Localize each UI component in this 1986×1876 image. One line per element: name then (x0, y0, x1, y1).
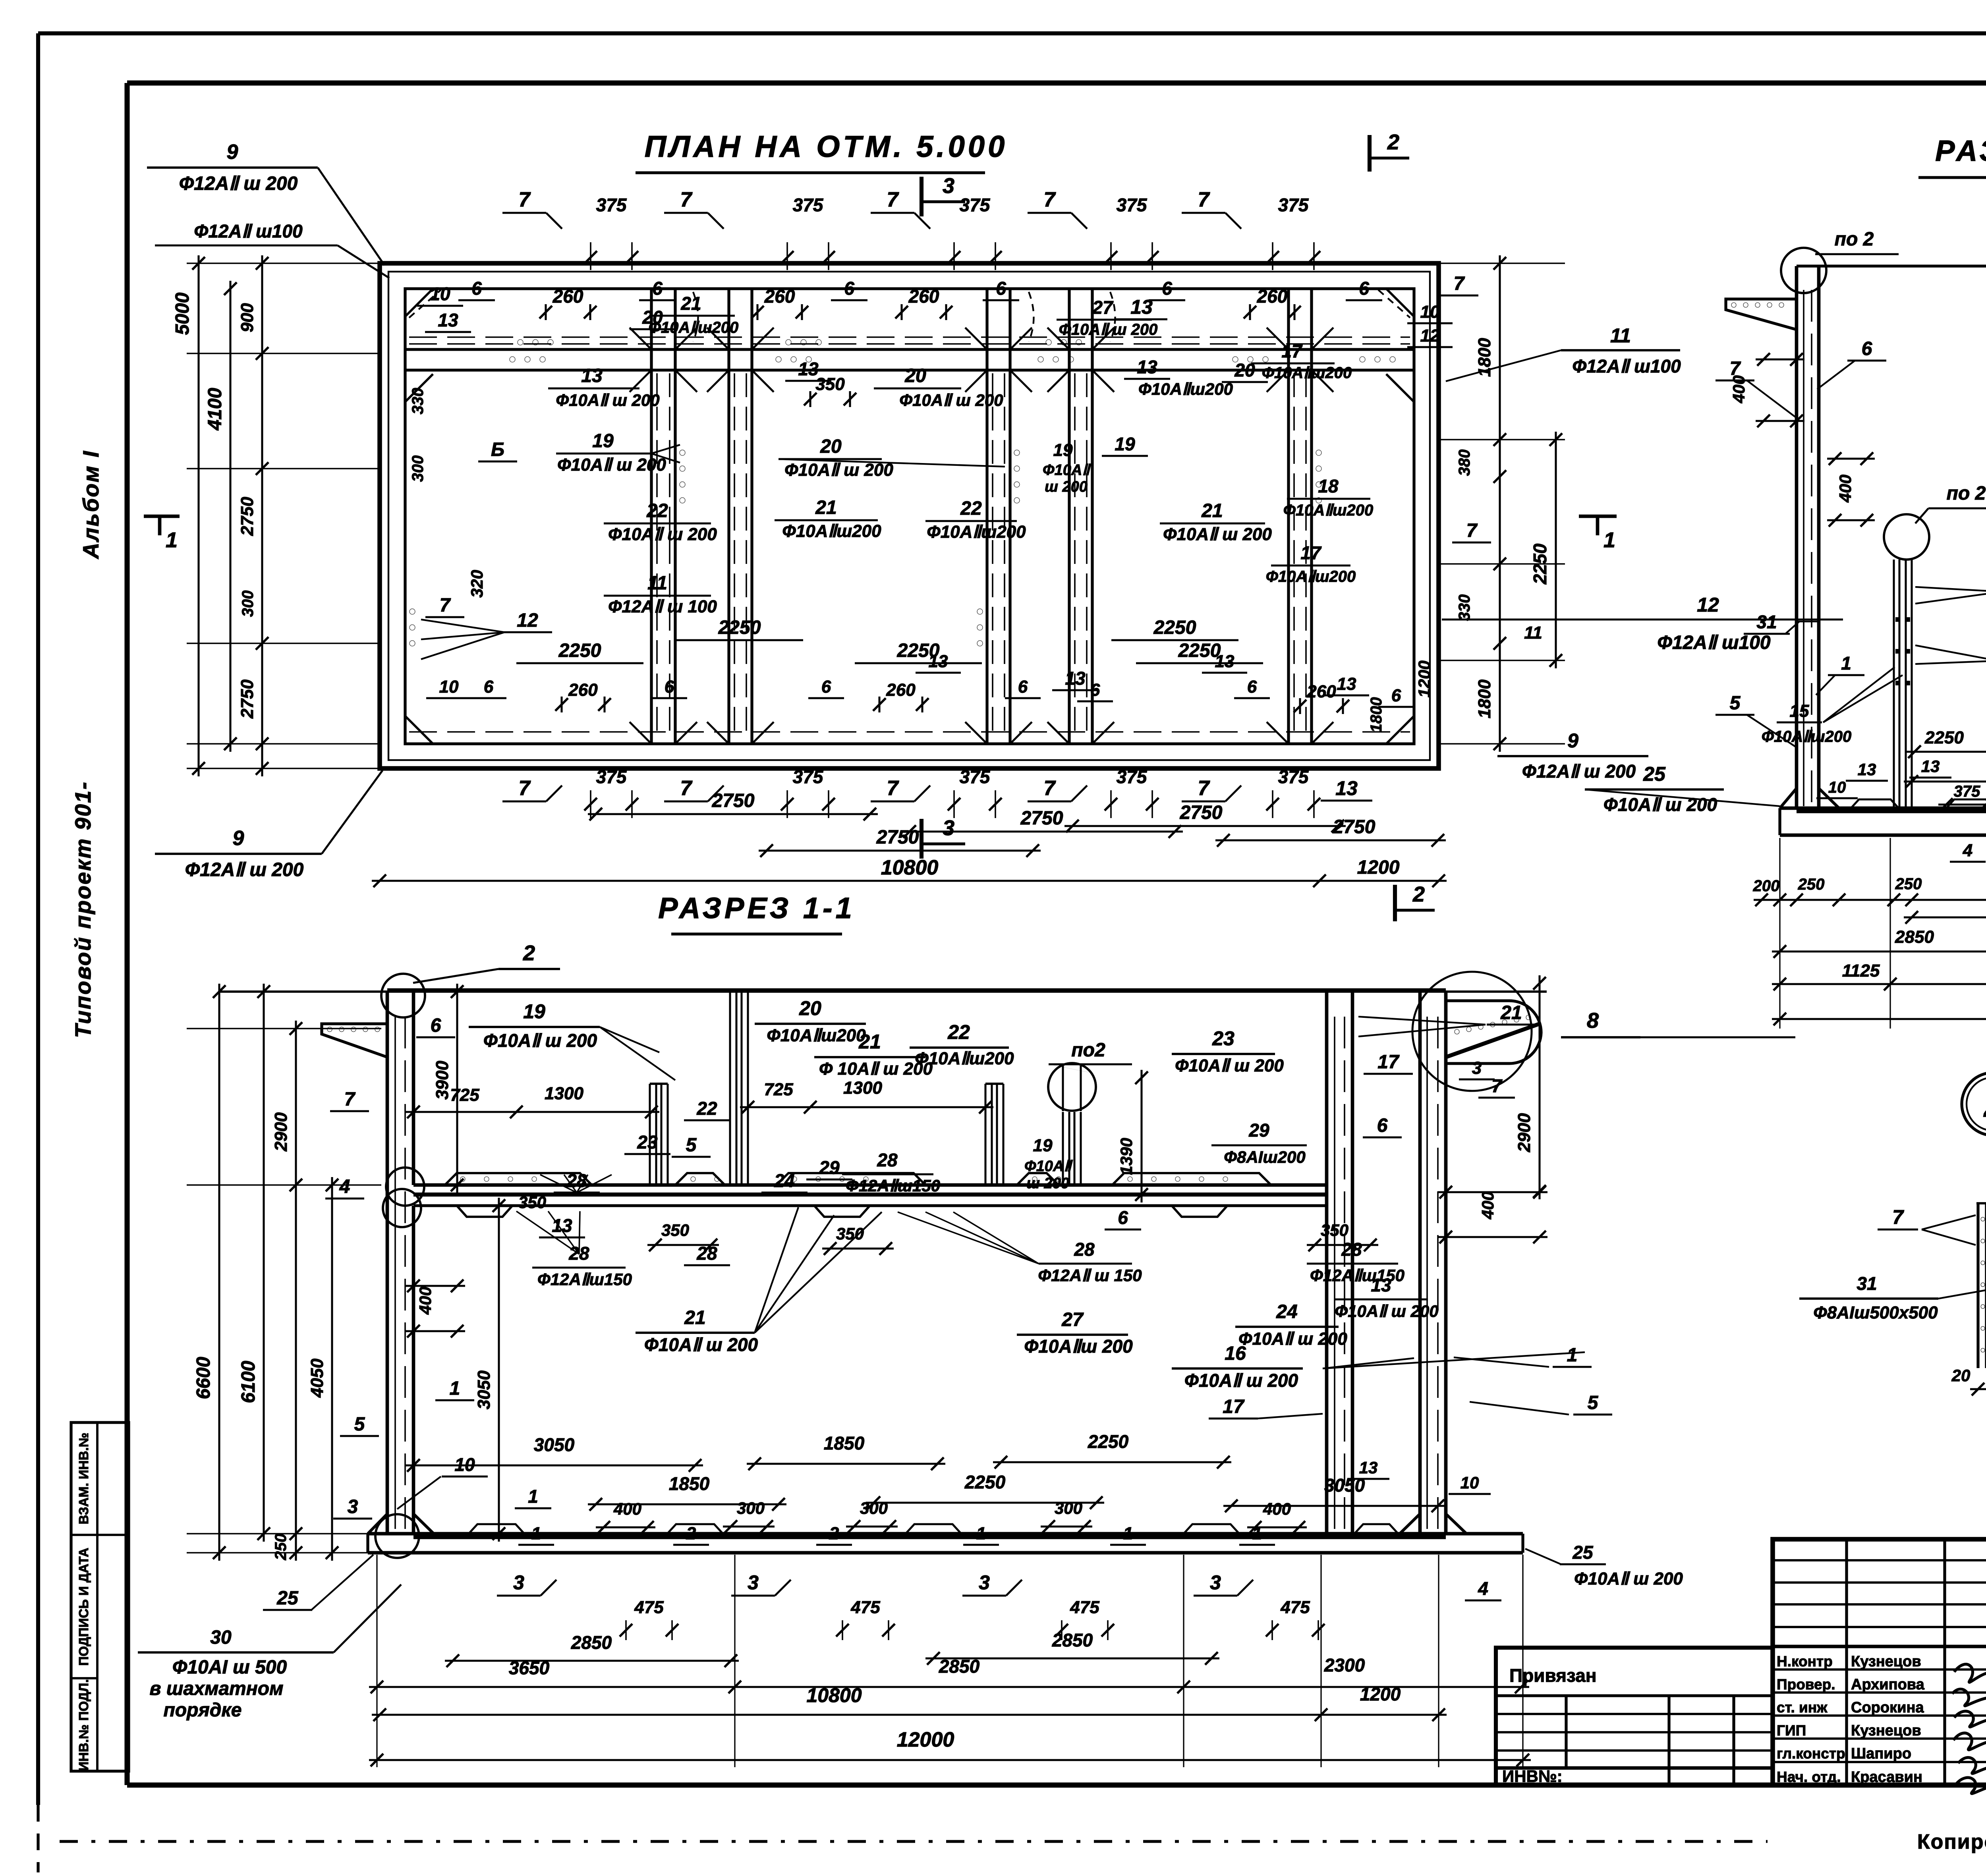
svg-text:Сорокина: Сорокина (1851, 1699, 1924, 1716)
detail balloon circle 2 (1962, 1073, 1986, 1135)
svg-text:10800: 10800 (806, 1684, 862, 1706)
svg-text:6: 6 (431, 1015, 441, 1036)
svg-text:6600: 6600 (193, 1357, 214, 1399)
plan outer wall rectangle (380, 263, 1439, 768)
svg-text:13: 13 (552, 1215, 572, 1236)
plan outer wall formwork line (388, 272, 1430, 760)
svg-text:3: 3 (1472, 1058, 1482, 1078)
s11 leader 25 left (311, 1555, 373, 1610)
svg-text:17: 17 (1281, 341, 1303, 361)
svg-text:Ф10АⅡш200: Ф10АⅡш200 (782, 521, 881, 541)
svg-text:1390: 1390 (1117, 1138, 1136, 1175)
plan right long leader line 12 (1442, 618, 1843, 620)
svg-text:300: 300 (239, 591, 257, 617)
svg-text:2300: 2300 (1324, 1655, 1365, 1675)
s11 leaders 28 below a (516, 1211, 579, 1254)
svg-text:6: 6 (821, 677, 831, 697)
svg-text:Ф10АⅡ ш 200: Ф10АⅡ ш 200 (483, 1030, 597, 1051)
svg-text:Ф10АⅡ ш 200: Ф10АⅡ ш 200 (608, 525, 717, 544)
s11 leader 21 low (755, 1215, 834, 1333)
svg-text:350: 350 (1321, 1221, 1348, 1239)
svg-text:1850: 1850 (824, 1433, 865, 1453)
svg-text:3900: 3900 (433, 1061, 452, 1100)
ext table INV row top line (1496, 1766, 1773, 1770)
column detail left bar (1976, 1203, 1979, 1368)
signature table column lines (1845, 1539, 1848, 1785)
svg-text:1: 1 (1252, 1524, 1262, 1543)
svg-text:21: 21 (684, 1307, 705, 1328)
svg-text:17: 17 (1377, 1052, 1400, 1073)
svg-text:260: 260 (1306, 682, 1336, 701)
svg-text:2750: 2750 (1333, 816, 1376, 838)
svg-text:ш 200: ш 200 (1026, 1175, 1069, 1192)
s11 mid walkway slab rebar line (413, 1193, 1327, 1197)
s11 wall-slab junction node circles (386, 1168, 424, 1206)
s11 leader 21 right (1358, 1017, 1486, 1025)
s11 leader 5 right (1470, 1402, 1569, 1415)
margin strip divider 2 (71, 1677, 97, 1679)
svg-text:20: 20 (820, 436, 842, 457)
plan corridor rebar lines (409, 336, 1410, 338)
svg-text:330: 330 (1456, 594, 1473, 621)
ext table column lines (1565, 1696, 1567, 1768)
svg-text:1200: 1200 (1357, 857, 1400, 878)
svg-text:400: 400 (416, 1287, 435, 1315)
svg-text:2850: 2850 (1895, 927, 1934, 947)
svg-text:21: 21 (858, 1031, 881, 1053)
svg-text:ИНВ.№ ПОДЛ.: ИНВ.№ ПОДЛ. (76, 1679, 91, 1771)
svg-text:250: 250 (272, 1534, 290, 1561)
svg-text:725: 725 (764, 1080, 793, 1099)
svg-text:475: 475 (850, 1598, 880, 1617)
svg-text:375: 375 (960, 766, 991, 787)
svg-text:2: 2 (523, 941, 535, 965)
svg-text:250: 250 (1895, 875, 1922, 893)
plan interior wall x1835 (727, 289, 730, 744)
svg-text:1: 1 (1603, 528, 1615, 552)
svg-text:28: 28 (1074, 1239, 1095, 1260)
svg-text:3: 3 (1210, 1571, 1221, 1594)
plan interior wall x1640 (650, 289, 653, 744)
svg-text:300: 300 (1055, 1499, 1082, 1517)
svg-text:6: 6 (1377, 1115, 1388, 1136)
svg-text:13: 13 (1371, 1275, 1391, 1295)
signature table upper empty grid rows (1773, 1559, 1986, 1561)
svg-text:375: 375 (1278, 766, 1309, 787)
svg-text:Ф10АⅡ: Ф10АⅡ (1043, 462, 1091, 479)
s11 note leader (334, 1585, 401, 1652)
s22 left wall (1795, 266, 1799, 808)
s22 bottom extension verticals (1779, 838, 1780, 1029)
svg-text:475: 475 (1070, 1598, 1099, 1617)
s22 left top node circle (1781, 248, 1826, 293)
s11 left wall top node circle (381, 974, 425, 1017)
svg-text:260: 260 (908, 286, 939, 307)
svg-text:Ф12АⅡ ш100: Ф12АⅡ ш100 (1572, 356, 1681, 376)
plan bottom section mark 2 (1393, 885, 1397, 921)
svg-text:11: 11 (1524, 623, 1542, 643)
svg-text:5: 5 (1730, 693, 1741, 714)
svg-text:6: 6 (665, 677, 674, 697)
svg-text:6: 6 (471, 278, 482, 299)
svg-text:300: 300 (737, 1499, 765, 1517)
svg-text:1: 1 (166, 528, 178, 552)
plan left dim line 5000 (197, 255, 199, 776)
svg-text:250: 250 (1798, 876, 1825, 893)
svg-text:Ф10АⅡш 200: Ф10АⅡш 200 (1024, 1336, 1133, 1357)
svg-text:по 2: по 2 (1947, 483, 1986, 504)
s11 right corbel diagonal (1446, 1024, 1540, 1057)
svg-text:380: 380 (1456, 450, 1473, 476)
svg-text:Ф12АⅡ ш 150: Ф12АⅡ ш 150 (1038, 1266, 1142, 1285)
svg-text:2750: 2750 (1180, 802, 1223, 823)
svg-text:25: 25 (1572, 1542, 1594, 1563)
svg-text:23: 23 (637, 1132, 658, 1152)
plan interior wall x2692 (1068, 289, 1070, 744)
svg-text:3: 3 (513, 1571, 524, 1594)
s11 leaders 28a (540, 1175, 577, 1193)
svg-text:ПЛАН НА ОТМ. 5.000: ПЛАН НА ОТМ. 5.000 (645, 130, 1008, 164)
svg-text:5: 5 (686, 1135, 697, 1156)
svg-text:330: 330 (409, 388, 427, 415)
plan right dim chain 2 (1555, 432, 1557, 668)
svg-text:7: 7 (440, 595, 451, 616)
s11 bottom slab bottom line (368, 1551, 1523, 1555)
svg-text:2850: 2850 (1052, 1630, 1093, 1650)
plan leader 20 cell2 (779, 459, 1005, 467)
svg-text:17: 17 (1223, 1396, 1245, 1417)
svg-text:3: 3 (979, 1571, 990, 1594)
svg-text:Ф10АI ш 500: Ф10АI ш 500 (172, 1657, 287, 1678)
svg-text:Ф10АⅡ ш 200: Ф10АⅡ ш 200 (1574, 1569, 1683, 1588)
s22 top edge line (1797, 264, 1986, 267)
s11 dim 6100 (263, 984, 265, 1542)
s11 right inner wall (1325, 992, 1329, 1534)
svg-text:375: 375 (960, 195, 991, 215)
svg-text:350: 350 (815, 374, 845, 394)
svg-text:Ф12АⅡ ш 200: Ф12АⅡ ш 200 (179, 173, 298, 194)
svg-text:РАЗРЕЗ 2-2: РАЗРЕЗ 2-2 (1935, 134, 1986, 167)
svg-text:по 2: по 2 (1835, 229, 1874, 250)
s11 leader 19 (600, 1027, 675, 1080)
sheet outer border top (38, 31, 1986, 35)
plan interior wall x3244 (1287, 289, 1290, 744)
svg-text:20: 20 (904, 365, 926, 386)
svg-text:725: 725 (450, 1085, 479, 1105)
ext table row line under Privyazan (1496, 1694, 1773, 1697)
svg-text:Ф10АⅡ ш 200: Ф10АⅡ ш 200 (1238, 1329, 1347, 1349)
svg-text:9: 9 (1567, 730, 1578, 752)
svg-text:Ф12АⅡ ш 200: Ф12АⅡ ш 200 (185, 859, 304, 880)
svg-text:29: 29 (1248, 1120, 1269, 1141)
section 1-1 title underline (671, 932, 842, 935)
svg-text:2: 2 (1412, 882, 1425, 906)
svg-text:24: 24 (774, 1170, 794, 1191)
s22 leader 26 (1915, 587, 1986, 592)
svg-text:28: 28 (877, 1150, 898, 1170)
svg-text:19: 19 (523, 1000, 545, 1023)
svg-text:в шахматном: в шахматном (149, 1678, 283, 1699)
s22 leader 7 left (1747, 380, 1795, 417)
svg-text:7: 7 (1044, 188, 1056, 211)
svg-text:2750: 2750 (876, 827, 919, 848)
svg-text:11: 11 (1610, 324, 1631, 347)
svg-text:200: 200 (1753, 877, 1780, 895)
svg-text:6: 6 (1162, 278, 1172, 299)
svg-text:7: 7 (680, 188, 693, 211)
svg-text:1: 1 (1123, 1524, 1133, 1543)
svg-text:12: 12 (1697, 594, 1719, 616)
svg-text:400: 400 (1263, 1500, 1291, 1518)
s22 leader 14 (1915, 645, 1986, 661)
svg-text:10: 10 (1461, 1473, 1479, 1492)
svg-text:3: 3 (943, 174, 954, 198)
svg-text:Ф10АⅡ ш 200: Ф10АⅡ ш 200 (1603, 794, 1717, 815)
svg-text:12000: 12000 (897, 1728, 954, 1751)
svg-text:гл.констр: гл.констр (1777, 1745, 1845, 1762)
svg-text:РАЗРЕЗ 1-1: РАЗРЕЗ 1-1 (658, 892, 855, 924)
svg-text:10: 10 (1828, 779, 1846, 796)
svg-text:3050: 3050 (1324, 1475, 1365, 1496)
svg-text:7: 7 (519, 777, 531, 800)
svg-text:19: 19 (592, 430, 614, 452)
svg-text:3: 3 (348, 1496, 358, 1517)
svg-text:4: 4 (1963, 841, 1972, 860)
svg-text:3: 3 (748, 1571, 759, 1594)
svg-text:19: 19 (1033, 1136, 1053, 1155)
svg-text:Ф10АⅡ: Ф10АⅡ (1024, 1158, 1073, 1175)
svg-text:8: 8 (1587, 1009, 1599, 1033)
svg-text:Ф10АⅡш200: Ф10АⅡш200 (1262, 364, 1352, 382)
s22 slab pads (1851, 799, 1899, 808)
svg-text:6: 6 (1118, 1207, 1128, 1228)
svg-text:28: 28 (1341, 1239, 1362, 1260)
svg-text:13: 13 (1065, 668, 1086, 689)
svg-text:25: 25 (1643, 763, 1666, 785)
svg-text:Ф10АⅡш200: Ф10АⅡш200 (1762, 728, 1852, 745)
plan top section mark 2 (1368, 135, 1372, 172)
svg-text:21: 21 (1201, 500, 1223, 521)
svg-text:Альбом I: Альбом I (78, 450, 103, 560)
plan right label leader 11 (1446, 350, 1561, 381)
svg-text:1: 1 (1841, 653, 1851, 674)
svg-text:22: 22 (960, 498, 982, 519)
svg-text:2250: 2250 (1088, 1431, 1129, 1452)
svg-text:28: 28 (696, 1243, 717, 1264)
svg-text:Ф10АⅡш200: Ф10АⅡш200 (915, 1049, 1014, 1068)
svg-text:7: 7 (680, 777, 693, 800)
svg-text:475: 475 (634, 1598, 664, 1617)
svg-text:13: 13 (1921, 757, 1940, 776)
s11 bottom pads on slab (469, 1524, 524, 1534)
svg-text:320: 320 (468, 570, 486, 598)
s11 rebar post 4 with node circle (1062, 1112, 1064, 1185)
inner drawing frame (127, 80, 1986, 85)
plan rebar dot columns in cells (680, 450, 685, 455)
plan corridor wall lines (405, 348, 1414, 351)
svg-text:3050: 3050 (474, 1370, 494, 1409)
svg-text:23: 23 (1212, 1027, 1234, 1050)
ext table thin row lines (1496, 1713, 1773, 1715)
svg-text:Кузнецов: Кузнецов (1851, 1653, 1921, 1670)
svg-text:2250: 2250 (718, 617, 761, 638)
svg-text:19: 19 (1053, 440, 1073, 460)
plan bottom wall rebar lines (409, 731, 1410, 733)
plan right leader 25 (1585, 789, 1780, 806)
plan left dim line 4100 (229, 281, 231, 752)
svg-text:Ф12АⅡ ш 200: Ф12АⅡ ш 200 (1522, 761, 1636, 782)
svg-text:ПОДПИСЬ И ДАТА: ПОДПИСЬ И ДАТА (76, 1548, 91, 1666)
svg-text:13: 13 (581, 365, 603, 386)
svg-text:Ф10АⅡш200: Ф10АⅡш200 (927, 522, 1026, 542)
s11 dim 6600 (218, 984, 220, 1561)
svg-text:2: 2 (1983, 1087, 1986, 1124)
svg-text:260: 260 (553, 286, 583, 307)
svg-text:21: 21 (815, 497, 837, 518)
svg-text:21: 21 (680, 293, 701, 314)
column detail bottom dim (1970, 1388, 1986, 1390)
svg-text:15: 15 (1790, 701, 1809, 721)
svg-text:Ф10АⅡш200: Ф10АⅡш200 (1138, 380, 1233, 398)
svg-text:6: 6 (652, 278, 663, 299)
s22 leader 6 left (1817, 361, 1855, 389)
svg-text:6: 6 (996, 278, 1006, 299)
svg-text:2: 2 (686, 1524, 696, 1543)
s11 rebar post 2 full height (729, 992, 731, 1185)
svg-text:по2: по2 (1071, 1040, 1105, 1061)
svg-text:Копировал: Коршунова: Копировал: Коршунова (1917, 1830, 1986, 1853)
svg-text:Красавин: Красавин (1851, 1769, 1922, 1785)
svg-text:6: 6 (1018, 677, 1028, 697)
svg-text:Ф10АⅡ ш 200: Ф10АⅡ ш 200 (1184, 1370, 1298, 1391)
svg-text:260: 260 (568, 680, 598, 700)
s11 top edge line (219, 990, 1547, 993)
svg-text:5000: 5000 (172, 292, 193, 335)
plan rebar dot groups corridor (510, 357, 515, 362)
s22 left corbel (1726, 299, 1797, 330)
s11 right corbel dots (1455, 1029, 1459, 1034)
s11 bottom slab top line (368, 1532, 1523, 1536)
svg-text:7: 7 (1198, 777, 1210, 800)
svg-text:260: 260 (764, 286, 795, 307)
svg-text:2: 2 (829, 1524, 839, 1543)
svg-text:порядке: порядке (164, 1700, 242, 1721)
svg-text:20: 20 (642, 307, 663, 328)
s11 left wall foot node circle (375, 1514, 419, 1558)
svg-text:2250: 2250 (964, 1472, 1006, 1492)
title block left extension table box (1496, 1648, 1773, 1785)
svg-text:2: 2 (1387, 130, 1399, 154)
svg-text:7: 7 (1491, 1075, 1503, 1096)
svg-text:ВЗАМ. ИНВ.№: ВЗАМ. ИНВ.№ (76, 1432, 91, 1524)
svg-text:7: 7 (519, 188, 531, 211)
svg-text:1: 1 (528, 1486, 538, 1507)
s11 left wall inner face (412, 992, 415, 1185)
s22 left wall foot wedges (1780, 788, 1797, 808)
svg-text:22: 22 (646, 500, 668, 521)
margin strip inner vertical (96, 1422, 99, 1771)
svg-text:30: 30 (210, 1627, 232, 1648)
svg-text:400: 400 (1478, 1191, 1497, 1220)
svg-text:6: 6 (1247, 677, 1257, 697)
svg-text:1: 1 (1567, 1345, 1578, 1366)
svg-text:1: 1 (976, 1524, 986, 1543)
svg-text:10: 10 (430, 284, 450, 304)
svg-text:3650: 3650 (509, 1658, 550, 1678)
svg-text:12: 12 (1420, 326, 1440, 345)
svg-text:29: 29 (819, 1157, 840, 1178)
s11 right outer wall (1418, 992, 1422, 1534)
plan wall junction haunches (630, 370, 651, 392)
svg-text:13: 13 (1130, 296, 1153, 318)
s11 dim 3050 inner (498, 1198, 500, 1542)
s22 wall splice marks (1797, 621, 1819, 622)
svg-text:Ф10АⅡ ш 200: Ф10АⅡ ш 200 (1059, 321, 1158, 338)
plan bottom-left leader (322, 770, 383, 854)
svg-text:5: 5 (1588, 1392, 1599, 1413)
svg-text:375: 375 (793, 766, 824, 787)
svg-text:1850: 1850 (669, 1473, 710, 1494)
svg-text:2250: 2250 (1924, 728, 1964, 747)
svg-text:Ф10АⅡ ш 200: Ф10АⅡ ш 200 (557, 455, 666, 475)
s11 dim 3900 (456, 984, 458, 1193)
svg-text:2900: 2900 (1515, 1113, 1534, 1152)
column detail hook dots (1981, 1217, 1985, 1221)
svg-text:6: 6 (484, 677, 494, 697)
svg-text:1: 1 (531, 1524, 541, 1543)
svg-text:13: 13 (1858, 760, 1876, 779)
svg-text:13: 13 (1215, 652, 1234, 671)
svg-text:Ф10АⅡ ш 200: Ф10АⅡ ш 200 (556, 391, 659, 409)
svg-text:10: 10 (1420, 302, 1440, 322)
svg-text:Ф10АⅡш200: Ф10АⅡш200 (767, 1026, 866, 1045)
svg-text:Ф10АⅡ ш 200: Ф10АⅡ ш 200 (899, 391, 1003, 409)
svg-text:7: 7 (887, 777, 899, 800)
s11 left corbel dots (327, 1027, 332, 1032)
svg-text:375: 375 (1117, 766, 1148, 787)
svg-text:4050: 4050 (307, 1359, 327, 1398)
svg-text:400: 400 (1836, 475, 1855, 503)
svg-text:25: 25 (276, 1588, 299, 1609)
svg-text:1200: 1200 (1415, 660, 1433, 697)
svg-text:20: 20 (1951, 1366, 1971, 1385)
svg-text:375: 375 (1278, 195, 1309, 215)
plan right section mark 1 (1579, 515, 1617, 518)
signature name row lines (1773, 1668, 1986, 1671)
s22 mid pillar node circle (1884, 514, 1929, 560)
svg-text:20: 20 (799, 997, 821, 1019)
svg-text:2250: 2250 (1178, 640, 1221, 661)
svg-text:300: 300 (409, 455, 427, 482)
svg-text:17: 17 (1300, 542, 1322, 563)
plan cell corner haunches (405, 289, 433, 317)
svg-text:7: 7 (1198, 188, 1210, 211)
plan top section mark 3 (920, 177, 923, 216)
svg-text:375: 375 (596, 766, 627, 787)
svg-text:260: 260 (1257, 286, 1288, 307)
s11 rebar post 1 (649, 1084, 651, 1185)
svg-text:6100: 6100 (238, 1361, 259, 1403)
svg-text:Б: Б (491, 439, 504, 460)
svg-text:4: 4 (339, 1176, 350, 1197)
svg-text:27: 27 (1092, 297, 1114, 318)
plan left extension lines (187, 262, 380, 264)
s11 dim 2900-250 chain (295, 1021, 297, 1561)
svg-text:Шапиро: Шапиро (1851, 1745, 1911, 1762)
svg-text:400: 400 (613, 1500, 641, 1518)
svg-text:Ф10АⅡ ш 200: Ф10АⅡ ш 200 (1335, 1302, 1438, 1320)
svg-text:2750: 2750 (238, 679, 257, 719)
